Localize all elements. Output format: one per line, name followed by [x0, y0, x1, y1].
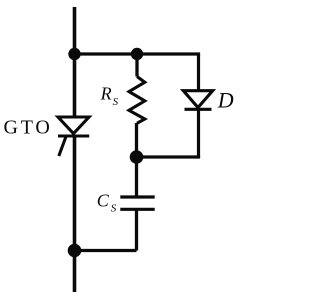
- wire resistor top lead: [135, 54, 138, 77]
- GTO thyristor triangle (anode): [58, 117, 89, 134]
- capacitor CS bottom plate: [120, 208, 154, 211]
- wire middle horizontal: [137, 155, 201, 158]
- wire diode top lead: [197, 54, 200, 91]
- node junction top-left: [68, 48, 80, 60]
- GTO cathode bar: [58, 134, 89, 137]
- resistor RS zigzag: [129, 77, 145, 124]
- wire bottom horizontal: [75, 249, 137, 252]
- svg-text:S: S: [113, 96, 119, 108]
- svg-text:R: R: [100, 84, 112, 104]
- wire resistor bottom lead: [135, 123, 138, 157]
- svg-text:D: D: [217, 88, 234, 113]
- diode D cathode bar: [185, 108, 212, 111]
- GTO gate lead: [59, 137, 66, 157]
- wire diode bottom lead: [197, 109, 200, 157]
- wire left vertical top segment: [73, 7, 77, 117]
- svg-text:S: S: [111, 203, 117, 215]
- diode D triangle: [183, 91, 212, 108]
- capacitor CS top plate: [120, 195, 154, 198]
- wire capacitor bottom lead: [135, 209, 138, 250]
- wire capacitor top lead: [135, 157, 138, 197]
- wire top horizontal: [75, 52, 201, 55]
- wire left vertical bottom segment: [73, 136, 77, 292]
- svg-text:GTO: GTO: [4, 117, 53, 139]
- node junction middle: [130, 150, 144, 164]
- node junction bottom-left: [68, 244, 82, 258]
- node junction top-middle: [131, 48, 143, 60]
- svg-text:C: C: [97, 190, 110, 210]
